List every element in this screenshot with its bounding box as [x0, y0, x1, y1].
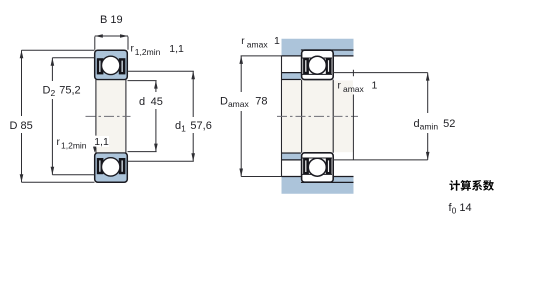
d1 dimension: [128, 71, 196, 161]
seal left (right view top): [303, 58, 309, 74]
bore cylinder left edge: [95, 80, 97, 153]
svg-text:D2 75,2: D2 75,2: [43, 85, 81, 99]
shaft shoulder bottom (blue): [282, 153, 301, 160]
seal left (bottom section): [97, 158, 104, 174]
svg-text:d1 57,6: d1 57,6: [175, 120, 212, 134]
shaft shoulder top (blue): [282, 73, 301, 80]
left bearing outline box (bottom section): [95, 153, 128, 182]
shaft right face line: [352, 70, 354, 160]
bore cylinder right edge: [125, 80, 127, 153]
svg-text:D 85: D 85: [10, 120, 33, 132]
svg-text:1,2min: 1,2min: [135, 47, 161, 57]
right bearing outline box (top section): [302, 50, 334, 79]
ball (right view bottom): [308, 158, 326, 176]
seal left (top section): [97, 58, 104, 74]
ball (right view top): [308, 56, 326, 74]
seal right (top section): [119, 58, 126, 74]
B dimension: [95, 34, 128, 50]
svg-text:r: r: [57, 137, 61, 148]
centerline left view: [86, 115, 131, 117]
seal right (bottom section): [119, 158, 126, 174]
svg-text:1,1: 1,1: [169, 43, 184, 55]
ball (top section): [102, 56, 120, 74]
seal right (right view top): [326, 58, 332, 74]
svg-text:1: 1: [274, 35, 280, 47]
svg-text:f0 14: f0 14: [449, 202, 472, 216]
d dimension: [128, 81, 158, 152]
inner ring faces (between sections): [302, 80, 334, 153]
r leader arrow (bottom): [94, 147, 96, 149]
d_amin dimension: [426, 73, 430, 160]
D2 dimension: [51, 58, 95, 175]
shaft region tint: [282, 80, 353, 152]
left bearing outline box (outer+inner ring cross-section, top): [95, 50, 128, 79]
svg-text:1,2min: 1,2min: [61, 141, 87, 151]
da level line top: [333, 72, 428, 74]
svg-text:amax: amax: [343, 84, 365, 94]
svg-text:B 19: B 19: [100, 14, 123, 26]
right view band lines (bottom section): [302, 158, 332, 174]
svg-text:r: r: [241, 36, 245, 47]
shaft left end face: [281, 56, 283, 177]
svg-text:damin 52: damin 52: [414, 118, 456, 132]
D_amax dimension: [239, 56, 281, 177]
da level line bottom: [333, 159, 428, 161]
bore region tint: [97, 80, 126, 152]
svg-text:Damax 78: Damax 78: [220, 96, 268, 110]
housing bottom bore lines: [282, 177, 354, 183]
D dimension: [20, 50, 95, 182]
计算系数 heading (drawn glyph paths): [449, 180, 493, 191]
centerline right view: [277, 115, 358, 117]
right view band lines (top section): [302, 58, 332, 74]
ball (bottom section): [102, 158, 120, 176]
seal left (right view bottom): [303, 158, 309, 174]
svg-text:d 45: d 45: [139, 96, 163, 108]
svg-text:1: 1: [372, 80, 378, 92]
svg-text:amax: amax: [247, 40, 269, 50]
right bearing outline box (bottom section): [302, 153, 334, 182]
seal right (right view bottom): [326, 158, 332, 174]
housing top bore lines: [282, 50, 354, 56]
housing top (blue): [282, 39, 354, 56]
housing bottom (blue): [282, 177, 354, 194]
svg-text:1,1: 1,1: [94, 136, 109, 148]
